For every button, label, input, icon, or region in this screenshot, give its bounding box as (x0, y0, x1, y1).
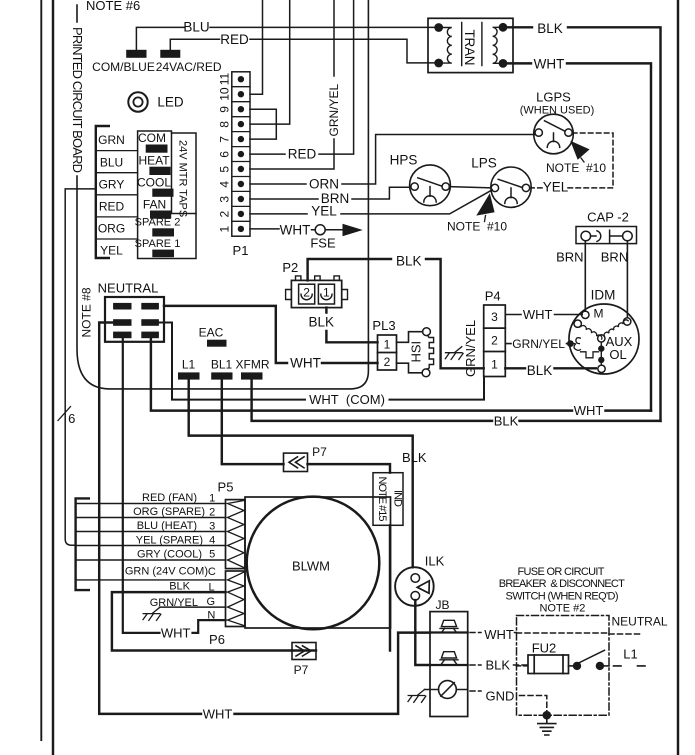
wire 24V bundle from table GRY row (65, 189, 96, 545)
wire P5 row 2 (76, 517, 226, 519)
terminal L1 (179, 373, 200, 379)
arrow NOTE #10 LGPS (570, 141, 589, 160)
wire neutral mid-right pin to WHT COM (159, 323, 484, 400)
P2 socket 1 (318, 284, 334, 304)
svg-text:8: 8 (218, 121, 232, 128)
svg-text:P7: P7 (312, 445, 327, 459)
connector P4 body (484, 305, 506, 377)
svg-text:BLWM: BLWM (292, 559, 330, 574)
ILK bottom contact (411, 592, 420, 601)
neutral terminal block (105, 297, 164, 342)
earth ground symbol (538, 715, 556, 735)
fuse FU2 body (528, 655, 569, 674)
svg-text:BLK: BLK (494, 413, 519, 428)
P5 row pin letters (207, 493, 216, 622)
svg-text:5: 5 (218, 166, 232, 173)
P5 row labels (125, 492, 208, 609)
svg-text:XFMR: XFMR (236, 357, 270, 371)
svg-text:BRN: BRN (556, 250, 583, 265)
svg-text:GND: GND (486, 688, 515, 703)
IDM centre contact (598, 335, 605, 342)
svg-text:3: 3 (218, 196, 232, 203)
wire P1 pin10 to top (250, 0, 263, 94)
svg-text:LED: LED (157, 95, 184, 110)
IDM contact 2 (574, 320, 581, 327)
wire GND dashed JB to earth (470, 691, 547, 713)
svg-text:10: 10 (218, 87, 232, 101)
wire BLK row L to P7 loop (112, 592, 292, 650)
svg-text:P2: P2 (282, 260, 298, 275)
svg-text:RED: RED (220, 32, 249, 47)
wire NEUTRAL dashed inside box (517, 633, 641, 634)
svg-text:NOTE #8: NOTE #8 (80, 287, 94, 337)
wire GRN/YEL P1 pin5 to top (250, 0, 334, 169)
svg-text:P1: P1 (233, 243, 249, 258)
wire WHT neutral to PL3 pin2 (164, 306, 378, 363)
svg-text:YEL (SPARE): YEL (SPARE) (136, 534, 203, 546)
IDM OL junction dots (598, 345, 604, 351)
svg-text:RED: RED (99, 200, 125, 214)
fuse FSE arrow (343, 224, 363, 236)
wire BLK L1 to ILK (189, 379, 413, 567)
P2 side tabs (286, 290, 348, 300)
pressure switch HPS (410, 165, 451, 206)
wire GRN/YEL P4 pin2 to IDM (505, 343, 570, 345)
igniter HSI element (427, 335, 434, 369)
svg-text:BLK: BLK (169, 580, 190, 592)
svg-text:HSI: HSI (409, 341, 424, 363)
disconnect dashed box (517, 616, 610, 716)
IDM aux contact (624, 318, 631, 325)
transformer TRAN box (428, 18, 513, 72)
terminal COM/BLUE (127, 50, 146, 57)
svg-text:WHT: WHT (534, 57, 565, 72)
wire BLK dashed JB to fuse (470, 664, 528, 666)
svg-text:RED (FAN): RED (FAN) (142, 492, 197, 504)
svg-text:WHT: WHT (161, 625, 191, 640)
terminal BL1 (212, 373, 232, 379)
terminal XFMR (242, 373, 263, 379)
svg-text:FSE: FSE (310, 236, 336, 251)
svg-text:N: N (207, 610, 215, 622)
svg-text:2: 2 (218, 211, 232, 218)
wire BLK P4 pin1 to IDM OL (505, 367, 596, 369)
igniter HSI terminals (423, 328, 431, 336)
plug P7 upper (284, 453, 308, 471)
wire WHT transformer to right bus (507, 63, 651, 410)
svg-text:COOL: COOL (137, 175, 171, 189)
svg-text:GRN/YEL: GRN/YEL (463, 320, 478, 377)
box 24V MTR TAPS (172, 133, 197, 214)
svg-text:BLK: BLK (402, 450, 427, 465)
wire BRN P1 pin3 to HPS (250, 187, 411, 199)
wire WHT P1 pin1 to FSE (250, 228, 343, 231)
CAP-2 curved plate (591, 231, 601, 242)
terminal pad SPARE 2 (153, 229, 174, 236)
svg-text:SWITCH (WHEN REQ'D): SWITCH (WHEN REQ'D) (506, 590, 619, 602)
connector PL3 body (378, 335, 397, 370)
wire BRN left cap to IDM M (584, 241, 586, 311)
svg-text:HEAT: HEAT (138, 153, 170, 167)
P1 pins 11..1 (238, 76, 244, 232)
table row dividers (96, 151, 138, 239)
svg-text:GRN/YEL: GRN/YEL (327, 83, 341, 136)
svg-text:C: C (208, 566, 216, 578)
switch contact dots (573, 662, 581, 670)
IDM bottom contact (598, 365, 605, 372)
svg-text:P5: P5 (218, 480, 234, 495)
fuse FSE circle (315, 225, 325, 235)
wire BL1 to P7 (222, 379, 390, 473)
svg-text:6: 6 (68, 411, 75, 426)
transformer primary winding (439, 28, 452, 64)
ILK switch triangle (417, 581, 429, 593)
svg-text:P7: P7 (294, 663, 309, 677)
wire BRN right cap to IDM aux (626, 241, 628, 318)
svg-text:L1: L1 (623, 647, 637, 662)
IDM OL heater element (581, 352, 599, 358)
CAP-2 straight plate (610, 230, 623, 242)
svg-text:M: M (594, 307, 604, 321)
svg-text:BLK: BLK (537, 21, 563, 36)
svg-text:RED: RED (288, 147, 317, 162)
wire BLK transformer to right bus (507, 27, 660, 421)
wire IND to P7 lower (292, 525, 390, 650)
chassis ground at row G (143, 608, 161, 621)
svg-text:P4: P4 (485, 289, 501, 304)
pressure switch LPS (491, 167, 531, 207)
ILK top contact (411, 574, 420, 583)
svg-text:(WHEN USED): (WHEN USED) (520, 105, 595, 117)
bundle slash mark (58, 407, 71, 421)
svg-text:GRY: GRY (99, 177, 125, 191)
junction box JB (430, 612, 468, 717)
chassis ground at P4 (445, 347, 463, 360)
wire neutral mid-left pin to bottom WHT (99, 323, 430, 714)
svg-text:NOTE #10: NOTE #10 (546, 161, 606, 175)
wire WHT P4 pin3 to IDM M (505, 314, 582, 316)
svg-text:9: 9 (218, 106, 232, 113)
svg-text:1: 1 (323, 285, 330, 299)
svg-text:CAP -2: CAP -2 (587, 210, 629, 225)
fuse lead dashed (517, 665, 529, 667)
svg-text:TRAN: TRAN (462, 30, 477, 66)
wire neutral bottom-left pin to P6 N (123, 338, 226, 633)
IDM contact M (582, 311, 589, 318)
IDM aux winding (603, 319, 628, 337)
svg-text:WHT (COM): WHT (COM) (309, 392, 385, 407)
wire WHT dashed JB to disconnect (470, 632, 517, 634)
svg-text:5: 5 (209, 549, 215, 561)
svg-text:WHT: WHT (523, 307, 553, 322)
svg-text:2: 2 (491, 334, 498, 348)
bundle bracket at P5 (76, 498, 89, 590)
svg-text:P6: P6 (209, 632, 225, 647)
switch to box edge (604, 665, 609, 667)
fuse to switch wire (569, 665, 574, 667)
svg-text:GRN/YEL: GRN/YEL (512, 337, 565, 351)
wire RED (24VAC) (170, 39, 434, 63)
svg-text:EAC: EAC (199, 326, 224, 340)
wire P5 row 3 (76, 531, 226, 533)
svg-text:BLK: BLK (527, 363, 553, 378)
wire P5 row 1 (76, 503, 226, 505)
wire P1 pin8 to top (250, 0, 290, 124)
svg-text:3: 3 (491, 310, 498, 324)
JB BLK row (430, 664, 468, 666)
svg-text:ORG (SPARE): ORG (SPARE) (133, 506, 205, 518)
svg-text:ILK: ILK (425, 554, 445, 569)
svg-text:ORG: ORG (98, 222, 125, 236)
indicator IND NOTE #15 box (373, 473, 403, 526)
svg-text:11: 11 (218, 73, 232, 86)
IDM internal ground junction dot (567, 340, 574, 347)
terminal pad COM (146, 145, 167, 152)
wire BLU (136, 27, 434, 50)
svg-text:PL3: PL3 (372, 318, 395, 333)
wire BLK P2 pin1 to PL3 (326, 308, 377, 343)
terminal pad COOL (153, 189, 173, 196)
blower motor BLWM (247, 497, 380, 630)
chassis ground at JB (408, 690, 426, 703)
svg-text:BLK: BLK (309, 315, 335, 330)
svg-text:1: 1 (218, 226, 232, 233)
connector P2 body (291, 280, 341, 307)
svg-text:SPARE 1: SPARE 1 (135, 238, 181, 250)
svg-text:3: 3 (209, 520, 215, 532)
svg-text:BLK: BLK (396, 254, 422, 269)
JB ground screw (439, 681, 457, 699)
svg-text:COM: COM (138, 131, 166, 145)
wire RED P1 pin6 (250, 0, 354, 154)
svg-text:6: 6 (218, 151, 232, 158)
svg-text:HPS: HPS (390, 153, 418, 168)
transformer secondary winding (493, 27, 503, 63)
svg-text:24V MTR TAPS: 24V MTR TAPS (177, 140, 189, 217)
svg-text:ORN: ORN (309, 177, 339, 192)
svg-text:BLU: BLU (100, 155, 123, 169)
svg-text:OL: OL (609, 347, 626, 362)
svg-text:BLK: BLK (486, 658, 511, 673)
svg-text:BL1: BL1 (211, 357, 233, 371)
svg-text:YEL: YEL (543, 180, 569, 195)
interlock ILK body (395, 567, 434, 606)
svg-text:7: 7 (218, 136, 232, 143)
svg-text:24VAC/RED: 24VAC/RED (156, 60, 222, 74)
P2 socket 2 (299, 284, 315, 304)
terminal pad SPARE 1 (153, 250, 174, 257)
JB wire nut BLK (440, 652, 458, 664)
wire L1 dashed (614, 665, 646, 667)
border left line 1 (40, 0, 42, 740)
JB wire nut WHT (440, 620, 458, 632)
wire GRN/YEL row G to chassis ground (160, 606, 226, 608)
capacitor CAP-2 box (576, 227, 637, 244)
svg-text:YEL: YEL (100, 244, 123, 258)
earth junction dot (543, 711, 552, 720)
wire ORN P1 pin4 to LGPS (250, 135, 535, 185)
svg-text:FU2: FU2 (532, 640, 557, 655)
neutral block pins (113, 303, 159, 338)
svg-text:WHT: WHT (574, 403, 604, 418)
wire YEL P1 pin2 to LPS (250, 190, 492, 214)
svg-text:2: 2 (303, 285, 310, 299)
wire P5 row 4 (76, 545, 226, 547)
svg-text:LGPS: LGPS (536, 90, 571, 105)
JB ground row (425, 689, 468, 691)
wire BLK P2 to P4 pin1 (308, 259, 484, 368)
wire neutral bottom-right pin to right WHT bus (151, 338, 651, 410)
svg-text:NOTE #2: NOTE #2 (539, 602, 585, 614)
P6 crimp zigzag (228, 572, 245, 626)
border left line 2 (52, 0, 54, 755)
border right (677, 0, 679, 755)
svg-text:IND: IND (392, 490, 404, 507)
24V motor-tap table bracket (96, 126, 109, 258)
svg-text:NOTE #6: NOTE #6 (86, 0, 140, 13)
wire YEL dashed LPS to LGPS (530, 133, 613, 188)
svg-text:GRN: GRN (98, 133, 125, 147)
terminal 24VAC/RED (161, 50, 180, 57)
printed circuit board outline (77, 0, 368, 389)
svg-text:GRY (COOL): GRY (COOL) (137, 549, 202, 561)
svg-text:WHT: WHT (484, 627, 514, 642)
svg-text:NOTE #10: NOTE #10 (447, 219, 507, 233)
svg-text:NEUTRAL: NEUTRAL (611, 615, 667, 629)
arrow NOTE #10 LPS (476, 193, 494, 215)
svg-text:FUSE OR CIRCUIT: FUSE OR CIRCUIT (518, 566, 605, 578)
IDM internal ground hook (570, 338, 580, 351)
switch blade (578, 650, 605, 663)
svg-text:2: 2 (384, 355, 391, 369)
svg-text:PRINTED CIRCUIT BOARD: PRINTED CIRCUIT BOARD (70, 27, 85, 173)
transformer core (462, 23, 482, 66)
blower motor housing (245, 497, 391, 628)
svg-text:2: 2 (209, 506, 215, 518)
svg-text:GRN (24V COM): GRN (24V COM) (125, 566, 208, 578)
svg-text:COM/BLUE: COM/BLUE (92, 60, 155, 74)
svg-text:L1: L1 (182, 357, 196, 371)
wire BLK XFMR to right BLK bus (252, 379, 661, 421)
JB WHT row (430, 631, 468, 633)
wire P5 row 5 (76, 559, 226, 561)
LED indicator (128, 92, 147, 111)
terminal EAC (208, 340, 227, 346)
connector P5 body (226, 500, 246, 569)
svg-text:BREAKER & DISCONNECT: BREAKER & DISCONNECT (499, 578, 625, 590)
svg-text:4: 4 (218, 181, 232, 188)
plug P7 lower (292, 643, 316, 660)
svg-text:LPS: LPS (471, 156, 497, 171)
P5 crimp zigzag (228, 501, 245, 568)
svg-text:4: 4 (209, 534, 215, 546)
P1 cell dividers (232, 87, 250, 222)
svg-text:1: 1 (491, 358, 498, 372)
svg-text:BRN: BRN (601, 250, 628, 265)
table outer box (138, 131, 196, 259)
svg-text:JB: JB (435, 598, 449, 612)
svg-text:IDM: IDM (591, 288, 616, 303)
transformer terminals (434, 23, 507, 68)
CAP-2 left terminal (581, 231, 591, 241)
CAP-2 right terminal (623, 231, 633, 241)
svg-text:FAN: FAN (143, 198, 166, 212)
svg-text:NOTE #15: NOTE #15 (376, 477, 388, 522)
IDM run winding (581, 324, 603, 339)
wire jumper P1 pins 9-7 (250, 109, 276, 139)
svg-text:WHT: WHT (280, 223, 311, 238)
svg-text:1: 1 (209, 493, 215, 505)
svg-text:BLU: BLU (183, 20, 209, 35)
P2 top tabs (296, 276, 340, 281)
wire HPS to LPS (449, 187, 491, 188)
terminal pad FAN (151, 211, 171, 218)
svg-text:YEL: YEL (311, 203, 337, 218)
wire ILK to JB BLK row (415, 600, 430, 665)
svg-text:BLU (HEAT): BLU (HEAT) (137, 520, 197, 532)
connector P1 body (232, 72, 250, 236)
svg-text:WHT: WHT (290, 355, 321, 370)
P1 pin numbers 1-11 (218, 73, 232, 233)
terminal pad HEAT (150, 167, 170, 174)
motor IDM body (569, 304, 639, 374)
svg-text:NEUTRAL: NEUTRAL (98, 280, 159, 295)
wire P5 row C (76, 579, 226, 581)
pressure switch LGPS (534, 114, 574, 154)
svg-text:WHT: WHT (203, 706, 233, 721)
igniter HSI wiring (397, 332, 423, 373)
connector P6 body (226, 571, 246, 627)
svg-text:1: 1 (384, 338, 391, 352)
